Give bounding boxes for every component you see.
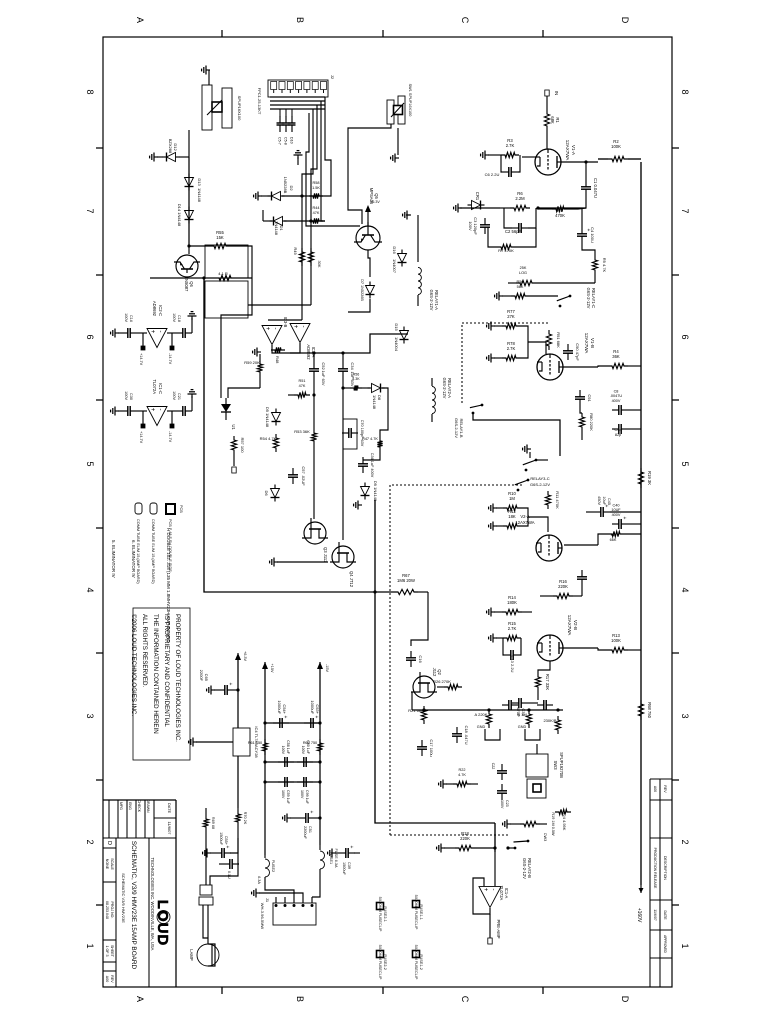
- svg-text:G6S-2-12V: G6S-2-12V: [586, 288, 591, 309]
- fuse clip FUSE1-1: [413, 901, 420, 908]
- svg-text:R19 3K: R19 3K: [647, 471, 652, 485]
- relay RELAY1-A coil: [417, 250, 419, 262]
- svg-text:100V: 100V: [468, 221, 473, 231]
- resistor R18 220K: [455, 845, 475, 850]
- wire +6.3V rail: [237, 660, 239, 728]
- resistor R49 30K inline: [299, 248, 304, 266]
- svg-text:V1-B: V1-B: [590, 338, 595, 348]
- svg-text:230K/B: 230K/B: [543, 718, 556, 723]
- svg-text:SPUP19270B: SPUP19270B: [559, 752, 564, 778]
- svg-text:R48: R48: [275, 356, 280, 364]
- connector bus lines: [270, 96, 325, 98]
- svg-text:+: +: [308, 811, 314, 814]
- svg-text:R17 33K: R17 33K: [545, 674, 550, 691]
- svg-text:36K: 36K: [612, 354, 620, 359]
- dashed relay link 2: [390, 485, 522, 835]
- svg-text:TECHNOLOGIES INC. WOODINVILLE,: TECHNOLOGIES INC. WOODINVILLE, WA, USA: [150, 858, 155, 951]
- svg-text:27K: 27K: [507, 314, 515, 319]
- wire pot bus: [412, 709, 563, 711]
- supply rail arrows: [317, 662, 323, 669]
- svg-text:R57 100: R57 100: [240, 437, 245, 453]
- wire V2-A plate: [564, 544, 598, 546]
- svg-text:C3 120pF: C3 120pF: [473, 217, 478, 235]
- svg-text:©2006 LOUD TECHNOLOGIES INC.: ©2006 LOUD TECHNOLOGIES INC.: [130, 614, 137, 716]
- svg-text:C58 1uF: C58 1uF: [286, 740, 290, 755]
- svg-text:+6.3V: +6.3V: [370, 200, 380, 204]
- svg-text:100V: 100V: [172, 313, 176, 322]
- op-amp IC1-C spare: [147, 407, 167, 426]
- svg-text:R91 68K: R91 68K: [556, 332, 561, 348]
- opto SW2 SPUP16X100: [222, 88, 232, 128]
- svg-text:COMM TUBE ELIM 15 (AMP BOARD): COMM TUBE ELIM 15 (AMP BOARD): [136, 519, 140, 584]
- capacitor C18 0.047U: [456, 727, 458, 734]
- svg-text:C45: C45: [607, 498, 611, 505]
- resistor R8 66K: [608, 531, 624, 536]
- capacitor C4 100U 10V: [581, 227, 583, 234]
- wire IC1-A input: [494, 852, 496, 886]
- svg-text:1N5228B: 1N5228B: [283, 177, 288, 194]
- svg-text:-: -: [300, 326, 306, 328]
- svg-text:6.3A: 6.3A: [257, 876, 261, 884]
- tube V1-B 12AX7WA: [537, 354, 563, 380]
- resistor R56 56K: [511, 293, 529, 298]
- diode D12 BZX288: [179, 156, 189, 158]
- resistor R68 750 inline rail: [638, 700, 643, 720]
- capacitor C3 120pF 100V: [484, 218, 486, 225]
- capacitor C pot B: [546, 704, 553, 706]
- svg-text:+: +: [282, 716, 288, 719]
- capacitor C32 470P: [521, 702, 528, 704]
- svg-text:TL072A: TL072A: [499, 886, 504, 901]
- wire IC1-A output: [489, 914, 491, 938]
- svg-text:2.2M: 2.2M: [515, 196, 525, 201]
- pot A wiper bracket: [485, 729, 500, 740]
- svg-text:RELAY1-A: RELAY1-A: [434, 290, 439, 310]
- svg-text:+: +: [227, 683, 233, 686]
- ground opto SW2: [208, 70, 210, 85]
- diode D6 1N4148: [271, 489, 280, 498]
- resistor R21 68K: [421, 706, 426, 724]
- diode D13 1N4148 inline: [185, 178, 194, 187]
- wire V1-A cathode: [522, 156, 535, 158]
- capacitor C44 82p: [621, 428, 628, 430]
- svg-text:5: 5: [680, 461, 690, 466]
- switch boxes SPUP16X100: [205, 245, 248, 278]
- svg-text:.0047U: .0047U: [610, 394, 623, 398]
- resistor R69 68: [205, 808, 207, 815]
- svg-text:450V: 450V: [597, 496, 601, 505]
- svg-text:1500uF: 1500uF: [342, 862, 346, 876]
- svg-text:2: 2: [680, 839, 690, 844]
- capacitor C55b 1500uF: [230, 838, 238, 853]
- capacitor C57 .02UF: [292, 468, 294, 475]
- branch wire ly454: [313, 353, 315, 362]
- tube V1-A 12AX7WA: [535, 149, 561, 175]
- relay2-B contact: [527, 840, 530, 843]
- svg-text:D8: D8: [377, 395, 382, 401]
- svg-text:COMM TUBE ELIM 15 (AMP BOARD): COMM TUBE ELIM 15 (AMP BOARD): [151, 519, 155, 584]
- resistor R56 4.7K: [215, 275, 235, 280]
- svg-text:C36 1uF 400V: C36 1uF 400V: [370, 453, 374, 478]
- net +160V arrow: [640, 885, 642, 893]
- wire to preamp opamp: [494, 823, 496, 852]
- svg-text:1M6 20W: 1M6 20W: [397, 578, 415, 583]
- svg-text:8: 8: [85, 89, 95, 94]
- svg-text:C17 100u: C17 100u: [429, 739, 434, 756]
- svg-text:IC1-C: IC1-C: [158, 383, 163, 394]
- svg-text:4.3K: 4.3K: [352, 377, 360, 381]
- resistor R60 750 inline: [317, 739, 322, 755]
- svg-text:C59 1uF: C59 1uF: [286, 790, 290, 805]
- svg-text:2N5087: 2N5087: [184, 277, 189, 292]
- capacitor C45 10uF 450V: [603, 511, 610, 513]
- svg-text:+: +: [621, 517, 627, 520]
- svg-text:C54+: C54+: [282, 704, 287, 714]
- svg-text:Q6: Q6: [189, 281, 194, 287]
- svg-text:C91: C91: [587, 394, 592, 402]
- svg-text:D1: D1: [279, 225, 284, 231]
- svg-text:4: 4: [85, 587, 95, 592]
- lamp connector: [200, 885, 212, 895]
- resistor R48: [271, 347, 285, 352]
- svg-text:D10: D10: [290, 137, 294, 144]
- ground relay1A top: [406, 214, 410, 216]
- svg-text:C44: C44: [615, 428, 622, 432]
- svg-text:12AX7WA: 12AX7WA: [565, 140, 570, 161]
- resistor R57 100: [231, 436, 236, 454]
- svg-text:R47 4.7K: R47 4.7K: [362, 437, 378, 441]
- svg-text:1uF 63V: 1uF 63V: [321, 370, 326, 385]
- svg-text:C52: C52: [321, 362, 326, 370]
- svg-text:18K: 18K: [508, 514, 516, 519]
- svg-text:D7 1N5226B: D7 1N5226B: [360, 279, 364, 301]
- svg-text:100V: 100V: [500, 800, 504, 809]
- diode D8 1N4148: [362, 387, 370, 389]
- svg-text:1M: 1M: [509, 496, 515, 501]
- svg-text:FUSE1-1: FUSE1-1: [419, 904, 423, 920]
- svg-text:IC2-C: IC2-C: [158, 305, 163, 316]
- capacitor C8 .0047U 400V: [621, 409, 628, 411]
- svg-text:4.7K: 4.7K: [458, 773, 466, 777]
- svg-text:A: A: [135, 996, 145, 1002]
- legend pcb box: [166, 504, 175, 514]
- svg-text:D: D: [620, 17, 630, 24]
- svg-text:D6: D6: [264, 490, 269, 496]
- IC1-C top pin -14.7V: [171, 411, 173, 426]
- capacitor C36 1uF 400V: [362, 457, 364, 464]
- zone ticks left/right: [542, 30, 544, 37]
- jfet Q4 J112: [332, 546, 354, 568]
- resistor R14 180K: [502, 609, 522, 614]
- svg-text:6: 6: [680, 334, 690, 339]
- border frame: [103, 37, 672, 987]
- svg-text:+15V: +15V: [270, 664, 274, 673]
- svg-text:100K: 100K: [611, 638, 621, 643]
- svg-text:SCHEMATIC, V3/9 HMV23E 15AMP B: SCHEMATIC, V3/9 HMV23E 15AMP BOARD: [130, 841, 137, 970]
- resistor R22 4.7K: [453, 781, 471, 786]
- svg-text:R56: R56: [353, 372, 360, 376]
- svg-text:C55+: C55+: [224, 836, 228, 846]
- resistor R56 4.3K: [350, 385, 362, 390]
- svg-text:0.1U: 0.1U: [227, 871, 231, 879]
- svg-text:R8: R8: [611, 533, 616, 537]
- svg-text:LOG: LOG: [519, 271, 527, 275]
- svg-text:R61 150: R61 150: [248, 741, 262, 745]
- ground J1: [259, 893, 303, 897]
- fuse clip FUSE2-2: [377, 951, 384, 958]
- resistor R19 3K inline rail: [638, 468, 643, 488]
- svg-text:+: +: [482, 888, 488, 892]
- svg-text:100V: 100V: [172, 391, 176, 400]
- svg-text:100V: 100V: [281, 746, 285, 755]
- resistor R2 100K: [608, 156, 628, 161]
- resistor R77 27K: [502, 323, 520, 328]
- pot A 220K: [486, 710, 491, 728]
- wire output feed long: [375, 500, 495, 823]
- resistor R16 220K: [553, 593, 573, 598]
- svg-text:C16: C16: [129, 315, 133, 322]
- svg-text:5: 5: [85, 461, 95, 466]
- svg-text:1: 1: [85, 943, 95, 948]
- diode U1 LED: [221, 404, 231, 412]
- resistor R26 270K: [444, 684, 462, 689]
- svg-text:PRE-AMP: PRE-AMP: [496, 919, 501, 938]
- svg-text:BZX288: BZX288: [168, 139, 173, 154]
- svg-text:100V: 100V: [281, 790, 285, 799]
- svg-text:+: +: [348, 846, 354, 849]
- svg-text:1N4004: 1N4004: [394, 337, 399, 352]
- svg-text:C70 100pF 63V: C70 100pF 63V: [360, 420, 364, 447]
- svg-text:G6S-2-12V: G6S-2-12V: [522, 858, 527, 879]
- svg-text:R24 4.99K: R24 4.99K: [562, 812, 567, 831]
- svg-text:1000uF: 1000uF: [277, 700, 282, 714]
- connector J3 IN terminal: [545, 90, 549, 96]
- wire diode chain junction: [188, 246, 190, 254]
- svg-text:100K: 100K: [611, 144, 621, 149]
- svg-text:3: 3: [85, 713, 95, 718]
- svg-text:R44: R44: [313, 206, 320, 210]
- svg-text:C1 0.047U: C1 0.047U: [593, 178, 598, 198]
- svg-text:R11 470K: R11 470K: [555, 491, 560, 509]
- svg-text:C18 .047U: C18 .047U: [464, 725, 469, 744]
- relay3-C contact: [535, 459, 538, 462]
- title block rows: [148, 838, 150, 987]
- resistor R11 470K: [545, 491, 550, 509]
- svg-text:100V: 100V: [124, 391, 128, 400]
- svg-text:TL072A: TL072A: [152, 379, 157, 394]
- wire R59 to U1: [228, 388, 260, 398]
- svg-text:D2: D2: [289, 185, 294, 191]
- pot 25K LOG: [516, 280, 536, 285]
- svg-text:SCALE: SCALE: [110, 858, 114, 870]
- svg-text:R1: R1: [555, 117, 560, 123]
- svg-text:D5 1N4148: D5 1N4148: [265, 407, 270, 428]
- diode CR1 TM60SK: [472, 201, 481, 210]
- resistor R80 220K: [579, 413, 584, 431]
- transistor Q6 2N5087: [176, 255, 198, 277]
- svg-text:PCB F 48 F EH DOUBLE SIDE: PCB F 48 F EH DOUBLE SIDE: [168, 519, 172, 572]
- IC2-C plus leg pin +14.7V: [142, 333, 144, 348]
- svg-text:NONE: NONE: [105, 859, 109, 870]
- svg-text:FPC1.25-13KT: FPC1.25-13KT: [257, 88, 262, 115]
- svg-text:+14.7V: +14.7V: [139, 353, 143, 366]
- svg-text:V2-A: V2-A: [520, 514, 530, 519]
- svg-text:1.5K: 1.5K: [312, 186, 320, 190]
- svg-text:R26 270K: R26 270K: [433, 679, 451, 684]
- svg-text:2.7K: 2.7K: [507, 346, 516, 351]
- svg-text:THE INFORMATION CONTAINED HERE: THE INFORMATION CONTAINED HEREIN: [152, 614, 159, 734]
- svg-text:Q2: Q2: [437, 669, 442, 675]
- regulator IC4 TL783: [233, 728, 250, 756]
- svg-text:8: 8: [680, 89, 690, 94]
- capacitor C pot A: [511, 704, 518, 706]
- svg-text:D: D: [106, 841, 112, 845]
- svg-text:LAMP: LAMP: [189, 949, 194, 961]
- svg-text:C34: C34: [350, 362, 355, 370]
- svg-text:6: 6: [85, 334, 95, 339]
- ground SW1: [397, 128, 399, 155]
- svg-text:7: 7: [680, 208, 690, 213]
- svg-text:11/6/07: 11/6/07: [653, 909, 657, 920]
- svg-text:R80 220K: R80 220K: [589, 413, 594, 431]
- wire Q6 branch to U1: [221, 278, 252, 398]
- svg-text:PCB: PCB: [179, 505, 183, 513]
- svg-text:1N4148: 1N4148: [197, 188, 202, 203]
- svg-text:-: -: [490, 889, 496, 891]
- svg-text:SPUP16X100: SPUP16X100: [237, 96, 242, 121]
- svg-text:CW3: CW3: [543, 833, 547, 841]
- resistor R51 47K: [294, 392, 310, 397]
- svg-text:RELAY2-A: RELAY2-A: [447, 378, 452, 398]
- resistor R1 68K: [544, 110, 549, 130]
- resistor R44 47K: [309, 218, 323, 223]
- connector small parts D10 C5 C7: [291, 109, 293, 117]
- svg-text:C65: C65: [204, 674, 209, 682]
- svg-text:C60 1uF: C60 1uF: [306, 740, 310, 755]
- op-amp IC2-C spare: [147, 329, 167, 348]
- svg-text:C90 47pF: C90 47pF: [575, 343, 580, 361]
- legend symbols: [135, 503, 142, 514]
- diode D5 1N4148: [272, 413, 281, 422]
- svg-text:R19 1M 0.5W: R19 1M 0.5W: [551, 812, 555, 836]
- capacitor C1 0.047U: [585, 180, 587, 187]
- svg-text:DATE: DATE: [663, 910, 667, 920]
- svg-text:R59 20K: R59 20K: [244, 360, 260, 365]
- svg-text:U1: U1: [231, 424, 236, 430]
- capacitor C51 2200uF: [308, 817, 315, 819]
- lamp wires: [207, 905, 209, 944]
- capacitor C54 1000uF: [265, 722, 320, 724]
- diode D15 1N4004: [400, 331, 409, 340]
- svg-text:DATE: DATE: [167, 803, 172, 814]
- wire Q6 node to output section: [204, 278, 375, 592]
- svg-text:3: 3: [680, 713, 690, 718]
- svg-text:470K: 470K: [555, 213, 565, 218]
- svg-text:66K: 66K: [610, 538, 617, 542]
- svg-text:2.7K: 2.7K: [508, 626, 517, 631]
- ground C51: [290, 817, 299, 819]
- zener D2 1N5228B chain: [282, 195, 325, 197]
- IC2-C top cap: [167, 332, 176, 334]
- svg-text:-15V: -15V: [325, 664, 329, 672]
- svg-text:2200uF: 2200uF: [303, 826, 307, 840]
- svg-text:FUSE1-2: FUSE1-2: [419, 954, 423, 970]
- svg-text:RELAY1-C: RELAY1-C: [591, 288, 596, 308]
- lamp: [197, 944, 219, 966]
- title block approvals grid: [153, 800, 155, 838]
- svg-text:C18: C18: [177, 315, 181, 322]
- svg-text:220K: 220K: [558, 584, 568, 589]
- capacitor C40 10UF 400V: [621, 523, 628, 525]
- svg-text:1 OF 3: 1 OF 3: [105, 946, 109, 957]
- contact relay2-B: [527, 479, 530, 482]
- svg-text:FUSE 6.3A: FUSE 6.3A: [334, 849, 338, 868]
- resistor R53 36K: [311, 429, 316, 445]
- svg-text:R69 68: R69 68: [211, 817, 215, 829]
- resistor R24 4.99K: [555, 809, 571, 814]
- svg-text:1N4148: 1N4148: [372, 395, 377, 410]
- svg-text:220K: 220K: [460, 836, 470, 841]
- wire IC1-A feedback: [473, 878, 490, 914]
- contact relay1-B: [481, 404, 484, 407]
- svg-text:C5-7: C5-7: [278, 137, 282, 145]
- svg-text:C39: C39: [347, 862, 351, 869]
- ground Q4 gate: [277, 561, 328, 563]
- svg-text:RELAY2-B: RELAY2-B: [527, 858, 532, 878]
- svg-text:5X20MM FUSECLIP: 5X20MM FUSECLIP: [378, 897, 382, 932]
- wire R67 top to C16: [411, 592, 428, 646]
- svg-text:-14.7V: -14.7V: [168, 431, 172, 443]
- svg-text:D14 1N4148: D14 1N4148: [177, 204, 182, 227]
- svg-text:SW1 SPUP16X100: SW1 SPUP16X100: [408, 84, 412, 117]
- svg-text:AD8692: AD8692: [306, 344, 311, 360]
- svg-text:CR1: CR1: [475, 192, 480, 201]
- wire V2-B plate: [563, 647, 598, 649]
- resistor R67 1M6 20W: [394, 589, 418, 594]
- svg-text:RELAY1-B: RELAY1-B: [459, 418, 464, 437]
- svg-text:R9 4.7K: R9 4.7K: [602, 258, 607, 273]
- svg-text:SCHEMATIC V3/9 HMV23E: SCHEMATIC V3/9 HMV23E: [121, 873, 126, 923]
- resistor R17 33K: [535, 673, 540, 691]
- svg-text:C51: C51: [308, 826, 312, 833]
- fuse FUSE1 6.3A: [319, 845, 321, 850]
- svg-text:DRAWN: DRAWN: [146, 799, 150, 813]
- svg-text:82p: 82p: [615, 433, 621, 437]
- svg-text:A00: A00: [105, 976, 109, 982]
- wire R77 R78 to V1B: [520, 326, 528, 358]
- svg-text:C16: C16: [418, 655, 423, 663]
- svg-text:C30: C30: [129, 393, 133, 400]
- wire +6.3V to lamp connector: [210, 864, 238, 885]
- power rail plus15: [264, 662, 266, 855]
- svg-text:J112: J112: [432, 668, 437, 677]
- svg-text:GND: GND: [518, 725, 527, 729]
- svg-text:4.1 R: 4.1 R: [218, 271, 228, 276]
- svg-text:56K: 56K: [517, 285, 524, 289]
- resistor R47 4.7K: [377, 437, 382, 451]
- svg-text:R49: R49: [293, 247, 298, 255]
- capacitor C14 inline: [581, 570, 583, 577]
- net +6.3V terminal Q5: [367, 212, 369, 226]
- svg-text:+: +: [149, 408, 155, 412]
- ground R6: [500, 207, 510, 209]
- svg-text:V1-A: V1-A: [571, 145, 576, 155]
- connector fan wires: [325, 97, 331, 196]
- wire +160V B+ rail: [640, 162, 642, 885]
- wire node column lx353: [290, 334, 408, 353]
- resistor R4 36K: [608, 363, 628, 368]
- resistor R61 150 inline: [262, 739, 267, 755]
